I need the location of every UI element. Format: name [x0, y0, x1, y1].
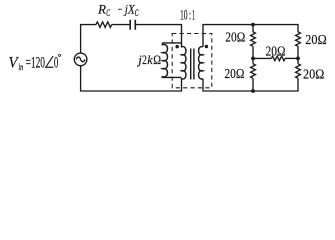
junction dot top left branch [251, 23, 255, 27]
junction dot mid right branch [296, 57, 300, 61]
polarity dot primary [175, 45, 179, 49]
wire left branch middle [252, 46, 254, 64]
svg-text:Ω: Ω [153, 53, 161, 67]
transformer secondary coil [199, 47, 204, 79]
svg-text:20Ω: 20Ω [224, 67, 244, 82]
polarity dot secondary [205, 45, 209, 49]
svg-text:C: C [106, 8, 110, 18]
resistor 20 ohm middle [271, 56, 285, 61]
svg-text:R: R [97, 2, 106, 16]
wire middle resistor to right branch [285, 57, 298, 59]
resistor 20 ohm upper right [296, 32, 301, 46]
junction dot bottom left branch [251, 89, 255, 93]
wire capacitor to transformer primary drop [135, 25, 181, 43]
wire left branch bottom [252, 78, 254, 91]
svg-text:20Ω: 20Ω [305, 33, 326, 48]
inductor j2k bottom bar [162, 76, 182, 78]
svg-text:C: C [135, 8, 139, 18]
ideal transformer dashed box [172, 34, 212, 88]
transformer core [191, 49, 194, 80]
svg-text:k: k [147, 53, 153, 67]
svg-text:20Ω: 20Ω [303, 68, 324, 83]
wire left branch top [252, 25, 254, 32]
junction dot mid left branch [251, 57, 255, 61]
svg-text:−: − [118, 2, 123, 16]
resistor 20 ohm upper left [251, 32, 256, 46]
resistor RC [96, 22, 112, 27]
transformer primary coil [182, 43, 187, 79]
wire mid node to middle resistor [253, 57, 271, 59]
wire right branch middle [297, 46, 299, 64]
svg-text:=120: =120 [26, 54, 46, 71]
inductor j2k top bar [162, 42, 181, 44]
capacitor -jXC plates [130, 20, 135, 30]
svg-text:10: 10 [180, 8, 188, 24]
svg-text::: : [189, 8, 191, 24]
svg-text:in: in [19, 63, 24, 73]
svg-text:0: 0 [54, 54, 59, 71]
voltage source Vin [74, 53, 87, 66]
resistor 20 ohm lower right [296, 64, 301, 78]
angle symbol in Vin label [46, 56, 54, 67]
resistor 20 ohm lower left [251, 64, 256, 78]
inductor j2kOhm coil [162, 43, 167, 78]
sine symbol inside source [76, 57, 85, 62]
wire secondary rise to top rail secondary [203, 25, 298, 47]
svg-text:1: 1 [192, 8, 195, 24]
wire source top to rail and rail to RC [81, 25, 96, 53]
wire secondary drop and bottom rail secondary [203, 78, 298, 91]
svg-text:2: 2 [142, 53, 147, 67]
wire source bottom and bottom rail primary [81, 66, 182, 91]
wire RC to capacitor [112, 24, 131, 26]
svg-text:20Ω: 20Ω [225, 30, 245, 45]
svg-text:20Ω: 20Ω [266, 44, 286, 59]
